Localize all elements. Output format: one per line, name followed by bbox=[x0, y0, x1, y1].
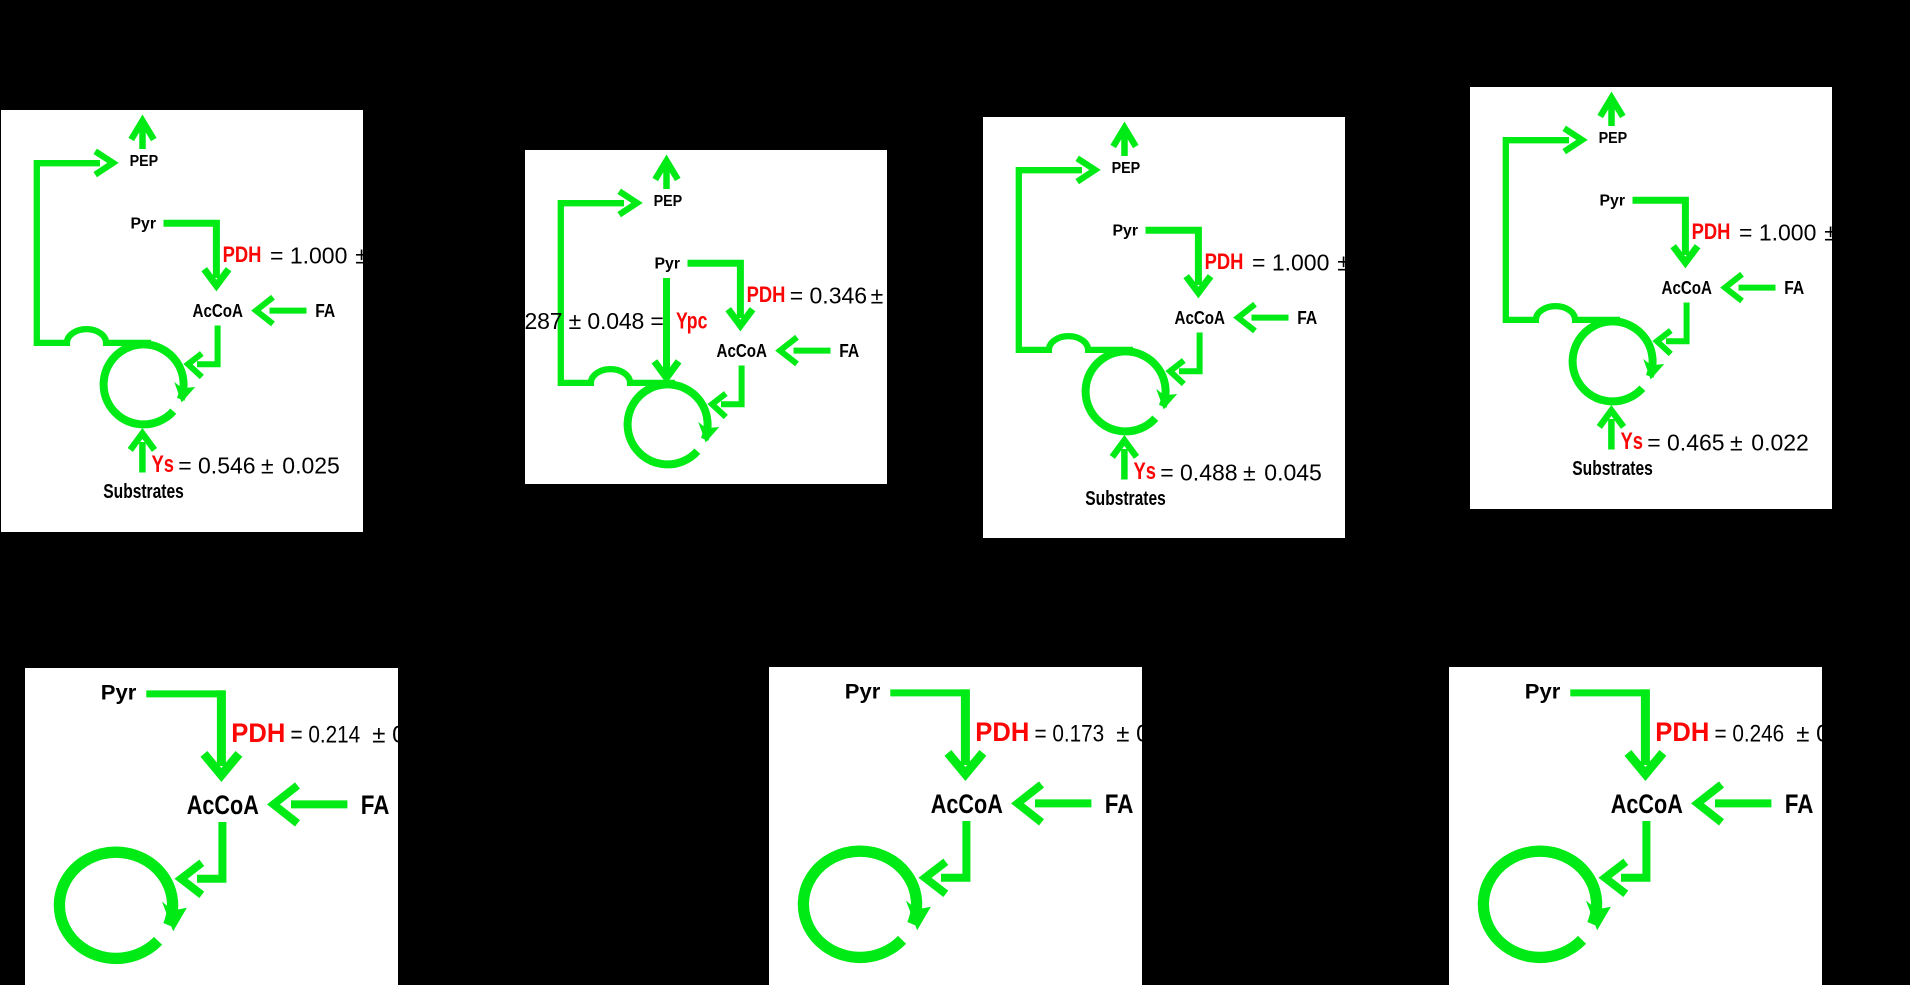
wire: PEP loop with hop bbox=[37, 163, 151, 343]
arrow FA to AcCoA bbox=[1018, 785, 1092, 823]
arrow FA to AcCoA bbox=[1238, 304, 1289, 331]
svg-text:Pyr: Pyr bbox=[845, 680, 881, 703]
svg-text:FA: FA bbox=[315, 300, 335, 321]
svg-text:Pyr: Pyr bbox=[101, 681, 137, 704]
svg-text:= 0.546±0.025: = 0.546±0.025 bbox=[178, 453, 340, 479]
svg-text:PDH: PDH bbox=[231, 718, 285, 748]
panel c bbox=[983, 117, 1345, 538]
arrow FA to AcCoA bbox=[1698, 785, 1772, 823]
svg-text:Substrates: Substrates bbox=[1085, 488, 1166, 510]
svg-text:PEP: PEP bbox=[130, 153, 159, 170]
svg-text:PEP: PEP bbox=[1599, 130, 1628, 147]
arrow: PEP export (up) bbox=[655, 161, 678, 189]
panel b bbox=[525, 150, 887, 484]
svg-text:FA: FA bbox=[839, 340, 859, 361]
svg-text:= 0.465±0.022: = 0.465±0.022 bbox=[1647, 430, 1809, 456]
svg-text:FA: FA bbox=[361, 790, 390, 820]
arrow: PEP export (up) bbox=[1600, 98, 1623, 126]
svg-text:PDH: PDH bbox=[223, 242, 262, 267]
arrow AcCoA to TCA bbox=[1170, 333, 1200, 384]
arrow PDH: Pyr to AcCoA bbox=[1633, 200, 1698, 262]
arrow PDH: Pyr to AcCoA bbox=[1146, 230, 1211, 292]
arrow PDH: Pyr to AcCoA bbox=[890, 689, 983, 774]
TCA cycle arrowhead bbox=[1645, 362, 1661, 378]
svg-text:FA: FA bbox=[1785, 789, 1814, 819]
arrow: loop into PEP (right) bbox=[619, 191, 637, 214]
TCA cycle circle bbox=[59, 852, 172, 958]
svg-text:Pyr: Pyr bbox=[655, 256, 681, 273]
TCA cycle circle bbox=[1086, 351, 1166, 431]
TCA cycle circle bbox=[628, 384, 708, 464]
svg-text:AcCoA: AcCoA bbox=[1611, 789, 1683, 819]
svg-text:0.287 ± 0.048 =: 0.287 ± 0.048 = bbox=[525, 308, 664, 334]
arrow FA to AcCoA bbox=[256, 297, 307, 324]
svg-text:Pyr: Pyr bbox=[1113, 223, 1139, 240]
TCA cycle arrowhead bbox=[1589, 905, 1609, 928]
TCA cycle circle bbox=[1483, 851, 1596, 957]
svg-text:= 0.173± 0.039: = 0.173± 0.039 bbox=[1035, 721, 1143, 748]
panel e bbox=[25, 668, 398, 985]
wire: PEP loop with hop bbox=[1019, 170, 1133, 350]
svg-text:PEP: PEP bbox=[1112, 160, 1141, 177]
svg-text:Substrates: Substrates bbox=[1572, 458, 1653, 480]
svg-text:= 1.000± 0.04: = 1.000± 0.04 bbox=[1252, 250, 1345, 276]
arrow: loop into PEP (right) bbox=[1077, 158, 1095, 181]
svg-text:= 0.246± 0.041: = 0.246± 0.041 bbox=[1715, 721, 1823, 748]
arrow PDH: Pyr to AcCoA bbox=[146, 690, 239, 775]
svg-text:Ys: Ys bbox=[152, 451, 175, 478]
arrow Substrates into TCA bbox=[1112, 441, 1136, 480]
arrow AcCoA to TCA bbox=[925, 821, 966, 894]
svg-text:AcCoA: AcCoA bbox=[187, 790, 259, 820]
svg-text:PDH: PDH bbox=[1692, 219, 1731, 244]
arrow: PEP export (up) bbox=[131, 121, 154, 149]
TCA cycle circle bbox=[803, 851, 916, 957]
arrow FA to AcCoA bbox=[780, 337, 831, 364]
TCA cycle circle bbox=[1573, 321, 1653, 401]
TCA cycle arrowhead bbox=[909, 905, 929, 928]
svg-text:Ypc: Ypc bbox=[676, 308, 707, 334]
arrow: loop into PEP (right) bbox=[1564, 128, 1582, 151]
panel d bbox=[1470, 87, 1832, 509]
svg-text:Pyr: Pyr bbox=[1600, 193, 1626, 210]
svg-text:FA: FA bbox=[1297, 307, 1317, 328]
arrow AcCoA to TCA bbox=[1657, 303, 1687, 354]
svg-text:AcCoA: AcCoA bbox=[931, 789, 1003, 819]
svg-text:= 1.000± 0.04: = 1.000± 0.04 bbox=[270, 243, 363, 269]
svg-text:PDH: PDH bbox=[1205, 249, 1244, 274]
panel f bbox=[769, 667, 1142, 985]
svg-text:FA: FA bbox=[1784, 277, 1804, 298]
svg-text:AcCoA: AcCoA bbox=[193, 300, 244, 321]
arrow PDH: Pyr to AcCoA bbox=[1570, 689, 1663, 774]
arrow AcCoA to TCA bbox=[1605, 821, 1646, 894]
TCA cycle arrowhead bbox=[165, 906, 185, 929]
svg-text:AcCoA: AcCoA bbox=[1662, 277, 1713, 298]
TCA cycle arrowhead bbox=[176, 385, 192, 401]
TCA cycle arrowhead bbox=[1158, 392, 1174, 408]
svg-text:Ys: Ys bbox=[1621, 428, 1644, 455]
svg-text:FA: FA bbox=[1105, 789, 1134, 819]
arrow AcCoA to TCA bbox=[181, 822, 222, 895]
panel g bbox=[1449, 667, 1822, 985]
arrow PDH: Pyr to AcCoA bbox=[688, 263, 753, 325]
svg-text:= 1.000± 0.04: = 1.000± 0.04 bbox=[1739, 220, 1832, 246]
panel a bbox=[1, 110, 363, 532]
svg-text:= 0.214± 0.046: = 0.214± 0.046 bbox=[291, 722, 399, 749]
wire: PEP loop with hop bbox=[1506, 140, 1620, 320]
svg-text:AcCoA: AcCoA bbox=[717, 340, 768, 361]
svg-text:Pyr: Pyr bbox=[1525, 680, 1561, 703]
TCA cycle arrowhead bbox=[700, 425, 716, 441]
arrow Ypc: Pyr to TCA bbox=[654, 278, 678, 378]
svg-text:PDH: PDH bbox=[1655, 717, 1709, 747]
svg-text:PEP: PEP bbox=[654, 193, 683, 210]
arrow Substrates into TCA bbox=[1599, 411, 1623, 450]
arrow AcCoA to TCA bbox=[188, 326, 218, 377]
svg-text:= 0.488±0.045: = 0.488±0.045 bbox=[1160, 460, 1322, 486]
TCA cycle circle bbox=[104, 344, 184, 424]
svg-text:PDH: PDH bbox=[747, 282, 786, 307]
svg-text:Ys: Ys bbox=[1134, 458, 1157, 485]
arrow AcCoA to TCA bbox=[712, 366, 742, 417]
arrow FA to AcCoA bbox=[274, 786, 348, 824]
wire: PEP loop with hop bbox=[561, 203, 675, 383]
arrow PDH: Pyr to AcCoA bbox=[164, 223, 229, 285]
svg-text:= 0.346± 0.038: = 0.346± 0.038 bbox=[790, 283, 887, 309]
svg-text:Pyr: Pyr bbox=[131, 216, 157, 233]
svg-text:PDH: PDH bbox=[975, 717, 1029, 747]
svg-text:Substrates: Substrates bbox=[103, 481, 184, 503]
arrow FA to AcCoA bbox=[1725, 274, 1776, 301]
svg-text:AcCoA: AcCoA bbox=[1175, 307, 1226, 328]
arrow: PEP export (up) bbox=[1113, 128, 1136, 156]
arrow: loop into PEP (right) bbox=[95, 151, 113, 174]
arrow Substrates into TCA bbox=[130, 434, 154, 473]
